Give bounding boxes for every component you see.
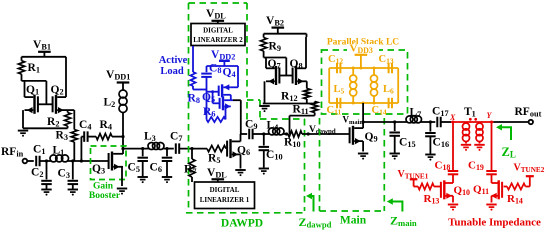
wire Y down to C19: [491, 122, 493, 170]
wire Q7 Q8 common gate: [280, 75, 293, 77]
arrow ZL: [500, 127, 511, 140]
terminal RFin: [23, 159, 28, 164]
wire PSLC top rail: [329, 67, 398, 69]
wire Q7 source down: [265, 58, 267, 69]
wire X to Y: [451, 121, 494, 123]
capacitor C1: [35, 156, 37, 167]
arrow Zmain: [391, 202, 403, 212]
wire to Q5 gate: [212, 92, 214, 104]
ground under C2: [41, 189, 51, 191]
resistor R12: [304, 89, 310, 100]
ground under Q1 source: [18, 130, 28, 132]
wire VB2 top rail: [264, 33, 307, 35]
wire VDD2 rail: [207, 65, 239, 67]
wire Q8 source node: [305, 80, 308, 82]
capacitor C19: [486, 170, 497, 172]
arrow Zdawpd: [310, 196, 314, 212]
supply VDD3: [347, 44, 379, 53]
wire Q3 source to ground: [121, 167, 123, 186]
wire R10 to Q9 gate: [302, 133, 350, 135]
junction blue gate node: [211, 90, 214, 93]
dashed box DAWPD bottom: [186, 212, 305, 214]
svg-text:Main: Main: [340, 215, 367, 227]
box digital linearizer 1: [195, 182, 255, 209]
resistor R11: [312, 102, 318, 113]
wire C17 to X: [441, 121, 451, 123]
capacitor C16: [429, 122, 431, 132]
inductor L2: [119, 90, 127, 98]
wire Q9 source to ground: [362, 141, 364, 151]
wire R9 to Q7 drain: [263, 51, 265, 58]
wire R11 to Vdawpd node: [314, 113, 316, 116]
wire L1 to Q3 gate: [69, 160, 109, 162]
capacitor C7: [175, 143, 177, 154]
svg-text:DAWPD: DAWPD: [221, 218, 263, 230]
wire Q2 drain to rail: [65, 60, 67, 97]
dashed box DAWPD right: [246, 3, 248, 120]
dashed box parallel stack LC: [322, 50, 408, 114]
ground under Q11: [486, 204, 496, 206]
resistor R7: [191, 149, 193, 159]
ground under C10: [259, 168, 269, 170]
wire VB1 top rail: [22, 56, 67, 58]
dashed box main left: [319, 118, 321, 211]
wire PSLC right end: [397, 68, 399, 103]
capacitor C3: [72, 161, 74, 179]
svg-text:LINEARIZER 2: LINEARIZER 2: [193, 36, 243, 44]
wire to Q4 gate: [207, 91, 219, 93]
dashed box DAWPD left: [188, 3, 190, 213]
capacitor C14: [388, 98, 390, 109]
dashed box DAWPD top: [189, 2, 248, 4]
capacitor C6: [166, 149, 168, 157]
transformer secondary coil: [476, 123, 483, 130]
wire Q8 drain to rail: [305, 37, 307, 68]
svg-text:C14: C14: [372, 105, 387, 117]
inductor L6: [373, 68, 375, 75]
svg-text:C12: C12: [328, 54, 343, 66]
wire L2 to Q3 drain: [122, 113, 124, 154]
svg-text:Tunable Impedance: Tunable Impedance: [448, 217, 541, 229]
inductor L7: [406, 116, 413, 123]
capacitor C9: [248, 129, 250, 140]
wire L4 to R10: [284, 133, 288, 135]
wire Q4 source up: [231, 86, 238, 88]
svg-text:C11: C11: [327, 105, 342, 117]
transformer primary coil: [463, 123, 470, 130]
wire C9 to C10 node: [253, 133, 269, 135]
svg-text:DIGITAL: DIGITAL: [203, 27, 233, 35]
wire C7 to R5: [179, 148, 207, 150]
resistor R8: [190, 72, 195, 86]
inductor L1: [50, 155, 57, 162]
wire RFin to C1: [27, 160, 34, 162]
dashed box DAWPD right step: [247, 99, 260, 101]
wire Q9 drain vertical: [362, 103, 364, 128]
wire DL2 to R8: [192, 46, 194, 72]
capacitor C2: [46, 161, 48, 179]
dashed box main right: [383, 118, 385, 211]
ground under C15: [390, 153, 400, 155]
wire R1 to Q1 drain: [21, 74, 23, 81]
capacitor C8: [206, 66, 208, 72]
ground under Q10: [448, 204, 458, 206]
ground under C5: [138, 176, 148, 178]
ground VB2 block: [259, 105, 269, 107]
ground under Q9: [358, 153, 368, 155]
wire X down to C18: [452, 122, 454, 170]
box digital linearizer 2: [191, 24, 245, 46]
resistor R1: [18, 61, 24, 74]
capacitor C17: [436, 117, 438, 128]
resistor R14: [507, 183, 526, 189]
capacitor C4: [80, 137, 82, 161]
terminal RFout: [529, 120, 533, 124]
svg-text:DIGITAL: DIGITAL: [210, 186, 240, 194]
inductor L3: [146, 148, 148, 150]
capacitor C13: [388, 63, 390, 74]
wire output line: [363, 121, 406, 123]
wire Q10 source to ground: [452, 182, 454, 184]
svg-text:L6: L6: [383, 84, 394, 96]
wire C1 to L1: [40, 160, 50, 162]
wire Q11 source to ground: [491, 196, 493, 203]
ground under C6: [162, 176, 172, 178]
resistor R10: [288, 131, 302, 137]
ground under C16: [425, 154, 435, 156]
wire L7 to C17: [422, 121, 436, 123]
capacitor C18: [448, 170, 459, 172]
wire Q1 source to ground: [24, 81, 26, 97]
resistor R13: [418, 183, 434, 189]
svg-text:L5: L5: [334, 84, 345, 96]
ground secondary: [474, 144, 484, 146]
wire Q6 drain up: [240, 134, 242, 141]
polarity dots T1: [469, 118, 472, 121]
wire Q6 source to ground: [240, 154, 242, 168]
wire main line to C5: [123, 148, 146, 150]
wire PSLC bottom rail: [329, 102, 398, 104]
wire R11 top: [307, 103, 315, 105]
wire Y to RFout: [494, 121, 529, 123]
ground under Q6: [235, 169, 245, 171]
capacitor C5: [142, 149, 144, 157]
wire PSLC left end: [328, 68, 330, 103]
capacitor C12: [336, 63, 338, 74]
ground under Q3: [117, 188, 127, 190]
wire cascode down to C9 node: [233, 99, 241, 101]
wire Q5 source to R6: [225, 106, 227, 119]
inductor L5: [352, 68, 354, 75]
svg-text:Active: Active: [159, 55, 188, 66]
svg-text:LINEARIZER 1: LINEARIZER 1: [200, 196, 250, 204]
ground primary: [461, 144, 471, 146]
wire L3 to C7: [164, 148, 174, 150]
ground under C3: [68, 189, 78, 191]
svg-text:C13: C13: [379, 54, 394, 66]
dashed box main bottom: [320, 210, 385, 212]
dashed plane Zdawpd: [304, 119, 306, 211]
wire Q4 drain to Q5: [230, 95, 232, 100]
wire Q1 Q2 common gate: [38, 103, 53, 105]
svg-text:Booster: Booster: [89, 191, 121, 201]
dashed box gain booster: [91, 146, 127, 180]
wire Q2 source node: [66, 109, 74, 111]
resistor R3: [71, 130, 77, 143]
resistor R2: [65, 113, 71, 127]
resistor R4: [88, 136, 96, 138]
svg-text:Gain: Gain: [93, 182, 114, 192]
resistor R9: [261, 38, 267, 52]
resistor R5: [207, 146, 226, 152]
capacitor C10: [263, 134, 265, 146]
capacitor C11: [336, 98, 338, 109]
svg-text:Load: Load: [160, 66, 184, 77]
capacitor C15: [394, 122, 396, 131]
resistor R6: [207, 117, 226, 122]
inductor L4: [269, 128, 276, 135]
